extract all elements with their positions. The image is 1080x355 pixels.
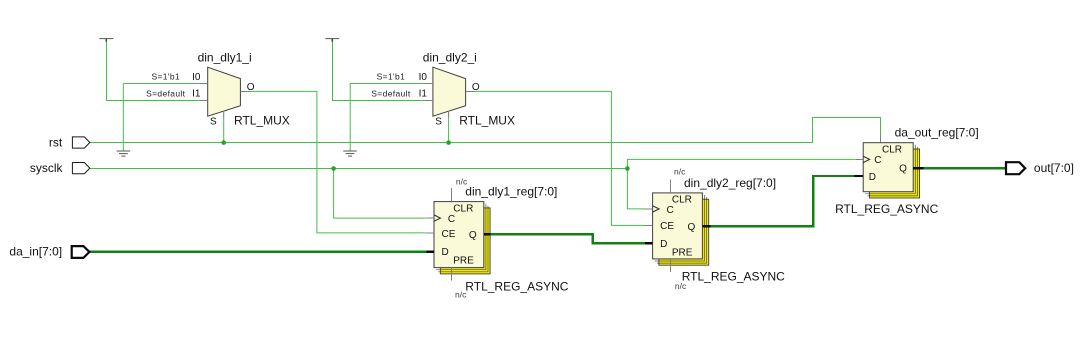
pin stub bus reg1 D xyxy=(427,250,434,252)
wire sysclk net xyxy=(90,168,628,170)
svg-text:CE: CE xyxy=(660,221,674,232)
svg-text:I0: I0 xyxy=(192,72,201,83)
wire power1 to mux1 I1 xyxy=(107,42,200,101)
pin stub bus reg3 D xyxy=(854,175,863,177)
port symbol out[7:0] xyxy=(1006,162,1025,174)
power symbol T2 xyxy=(325,39,339,42)
svg-text:out[7:0]: out[7:0] xyxy=(1034,161,1074,175)
register U4 din_dly2_reg stack xyxy=(653,193,709,265)
pin stub reg1 CLR nc xyxy=(451,188,453,202)
wire ground1 to mux1 I0 xyxy=(122,83,124,150)
svg-text:CE: CE xyxy=(442,229,456,240)
wire power2 to mux2 I1 xyxy=(333,42,425,101)
svg-text:n/c: n/c xyxy=(455,289,467,299)
svg-text:din_dly2_i: din_dly2_i xyxy=(423,51,477,65)
svg-text:Q: Q xyxy=(899,164,907,175)
svg-text:RTL_REG_ASYNC: RTL_REG_ASYNC xyxy=(682,270,785,284)
node junction sysclk reg1 C xyxy=(331,166,336,171)
svg-text:S: S xyxy=(210,116,217,127)
wire mux2 S to rst xyxy=(448,118,450,143)
pin stub mux2 S xyxy=(448,111,450,118)
svg-text:PRE: PRE xyxy=(672,248,693,259)
svg-text:O: O xyxy=(247,82,255,93)
svg-text:S: S xyxy=(435,116,442,127)
svg-text:din_dly1_reg[7:0]: din_dly1_reg[7:0] xyxy=(465,185,557,199)
node junction mux2 S xyxy=(446,140,451,145)
pin stub reg1 CE xyxy=(426,232,434,234)
svg-text:I0: I0 xyxy=(419,72,428,83)
wire ground2 to mux2 I0 xyxy=(349,83,351,150)
svg-text:rst: rst xyxy=(49,135,63,149)
svg-text:D: D xyxy=(869,172,876,183)
pin stub reg3 C xyxy=(856,158,863,160)
wire bus reg3 Q to out port xyxy=(924,167,1007,169)
wire mux1 O to reg1 CE xyxy=(250,91,425,233)
clock chevron reg3 C xyxy=(863,156,869,162)
svg-text:C: C xyxy=(874,155,881,166)
wire mux1 S to rst xyxy=(223,118,225,143)
svg-text:PRE: PRE xyxy=(453,256,474,267)
power symbol T1 xyxy=(99,39,113,42)
svg-text:C: C xyxy=(667,205,674,216)
pin stub reg1 PRE nc xyxy=(451,268,453,281)
wire rst net xyxy=(90,118,881,143)
pin stub bus reg2 D xyxy=(645,242,653,244)
svg-text:D: D xyxy=(660,239,667,250)
pin stub reg3 CLR xyxy=(880,135,882,143)
svg-text:I1: I1 xyxy=(192,89,201,100)
svg-text:n/c: n/c xyxy=(456,177,468,187)
pin stub reg2 C xyxy=(645,208,653,210)
clock chevron reg1 C xyxy=(434,215,440,221)
node junction mux1 S xyxy=(221,140,226,145)
port symbol da_in[7:0] xyxy=(72,246,90,258)
svg-text:O: O xyxy=(472,82,480,93)
pin stub reg1 C xyxy=(426,217,434,219)
mux U2 din_dly2_i body xyxy=(433,67,466,116)
svg-text:Q: Q xyxy=(469,230,477,241)
wire bus reg1 Q to reg2 D xyxy=(491,234,645,243)
svg-text:S=1'b1: S=1'b1 xyxy=(377,72,406,82)
register U3 din_dly1_reg stack xyxy=(434,202,490,274)
pin stub bus reg3 Q xyxy=(913,167,923,169)
wire bus da_in to reg1 D xyxy=(89,250,426,252)
svg-text:I1: I1 xyxy=(419,89,428,100)
svg-text:n/c: n/c xyxy=(674,166,686,176)
svg-text:RTL_MUX: RTL_MUX xyxy=(459,113,515,127)
svg-text:da_in[7:0]: da_in[7:0] xyxy=(9,245,62,259)
port symbol rst xyxy=(72,137,89,148)
pin stub reg2 CLR nc xyxy=(670,179,672,193)
svg-text:CLR: CLR xyxy=(453,203,473,214)
svg-text:RTL_MUX: RTL_MUX xyxy=(234,113,290,127)
svg-text:C: C xyxy=(448,214,455,225)
clock chevron reg2 C xyxy=(653,206,659,212)
svg-text:D: D xyxy=(442,247,449,258)
svg-text:RTL_REG_ASYNC: RTL_REG_ASYNC xyxy=(835,202,938,216)
register U5 da_out_reg stack xyxy=(863,143,919,198)
svg-text:S=1'b1: S=1'b1 xyxy=(151,72,180,82)
pin stub bus reg2 Q xyxy=(702,225,710,227)
wire bus reg2 Q to reg3 D xyxy=(710,176,854,226)
svg-text:CLR: CLR xyxy=(882,144,902,155)
pin stub mux1 S xyxy=(223,111,225,118)
ground symbol 1 xyxy=(117,151,131,156)
pin stub reg2 PRE nc xyxy=(670,259,672,272)
svg-text:da_out_reg[7:0]: da_out_reg[7:0] xyxy=(895,126,979,140)
svg-text:din_dly1_i: din_dly1_i xyxy=(198,51,252,65)
svg-text:RTL_REG_ASYNC: RTL_REG_ASYNC xyxy=(465,279,568,293)
pin stub reg2 CE xyxy=(645,224,653,226)
pin stub mux2 I1 xyxy=(425,100,433,102)
pin stub mux2 O xyxy=(466,91,476,93)
svg-text:din_dly2_reg[7:0]: din_dly2_reg[7:0] xyxy=(684,176,776,190)
node junction sysclk reg2 C xyxy=(625,166,630,171)
svg-text:Q: Q xyxy=(688,222,696,233)
wire mux2 O to reg2 CE xyxy=(476,91,645,225)
svg-text:sysclk: sysclk xyxy=(30,161,64,175)
pin stub mux1 I0 xyxy=(200,83,208,85)
svg-text:S=default: S=default xyxy=(371,89,411,99)
svg-text:n/c: n/c xyxy=(675,281,687,291)
port symbol sysclk xyxy=(72,163,89,174)
pin stub bus reg1 Q xyxy=(484,233,491,235)
mux U1 din_dly1_i body xyxy=(208,67,241,116)
pin stub mux1 I1 xyxy=(200,100,208,102)
pin stub mux1 O xyxy=(240,91,250,93)
svg-text:S=default: S=default xyxy=(146,89,186,99)
ground symbol 2 xyxy=(343,151,357,156)
pin stub mux2 I0 xyxy=(425,83,433,85)
svg-text:CLR: CLR xyxy=(672,195,692,206)
